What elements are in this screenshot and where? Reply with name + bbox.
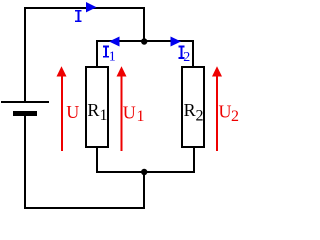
wire mid vertical lower (node B down to bottom wire) (143, 172, 145, 209)
wire mid-bottom horizontal (R1 bottom to R2 bottom) (96, 171, 195, 173)
battery V1 negative plate (13, 111, 37, 116)
svg-text:2: 2 (196, 108, 204, 125)
wire left vertical upper (battery to top) (24, 7, 26, 101)
wire mid vertical (top wire down to node A) (143, 7, 145, 42)
svg-text:U: U (219, 102, 232, 122)
wire left branch vertical (to R1 top) (96, 40, 98, 67)
wire right branch vertical (to R2 top) (192, 40, 194, 67)
voltage arrow U1 (right of R1, pointing up) (117, 66, 127, 151)
svg-text:2: 2 (231, 108, 239, 125)
wire branch horizontal (node A to both resistors) (96, 40, 194, 42)
label I2 (178, 46, 184, 59)
wire R2 bottom stub (193, 148, 195, 173)
svg-text:R: R (184, 100, 196, 120)
battery V1 positive plate (1, 101, 49, 103)
svg-text:1: 1 (137, 108, 145, 125)
current arrow I1 (pointing left toward R1) (109, 37, 120, 47)
resistor R2 body (182, 67, 204, 147)
current arrow I (on top wire, pointing right) (86, 2, 97, 12)
wire left vertical lower (bottom wire up to battery) (24, 116, 26, 209)
svg-text:R: R (87, 100, 99, 120)
label I1 (103, 46, 109, 58)
node B (bottom junction dot) (141, 169, 147, 175)
svg-text:2: 2 (183, 50, 190, 65)
svg-text:U: U (66, 102, 79, 122)
svg-text:1: 1 (109, 50, 116, 65)
wire bottom horizontal (24, 207, 145, 209)
voltage arrow U (left of R1, pointing up) (57, 66, 67, 151)
current arrow I2 (pointing right toward R2) (171, 37, 182, 47)
voltage arrow U2 (right of R2, pointing up) (212, 66, 222, 151)
wire R1 bottom stub (96, 148, 98, 173)
node A (top junction dot) (141, 38, 147, 44)
resistor R1 body (86, 67, 108, 147)
wire top horizontal (24, 7, 145, 9)
svg-text:1: 1 (100, 107, 108, 124)
label I (75, 10, 81, 22)
svg-text:U: U (123, 102, 136, 122)
